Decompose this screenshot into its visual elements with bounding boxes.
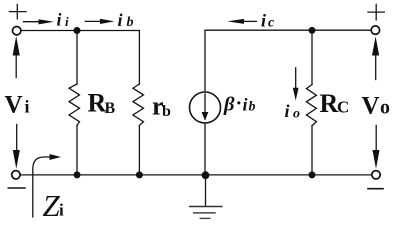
label R_B bbox=[88, 89, 116, 118]
arrow i_b bbox=[85, 19, 114, 24]
voltage arrow Vi up bbox=[13, 36, 20, 78]
input terminal top-left bbox=[13, 27, 21, 35]
svg-text:i: i bbox=[285, 101, 290, 121]
label V_i bbox=[5, 92, 30, 119]
label Z_i bbox=[43, 188, 65, 223]
node bottom r_b bbox=[136, 171, 143, 178]
minus sign bottom-left bbox=[8, 187, 25, 189]
node top junction R_B bbox=[74, 27, 81, 34]
resistor r_b bbox=[133, 84, 144, 126]
svg-text:i: i bbox=[65, 14, 69, 29]
svg-text:b: b bbox=[249, 100, 256, 115]
svg-text:β: β bbox=[223, 93, 235, 115]
wire output top rail bbox=[205, 30, 371, 92]
plus sign top-right bbox=[368, 4, 384, 20]
current source arrow bbox=[202, 94, 209, 121]
node top R_C bbox=[309, 27, 316, 34]
wire R_B top lead bbox=[76, 31, 78, 85]
svg-text:Z: Z bbox=[43, 188, 61, 223]
svg-text:o: o bbox=[293, 107, 300, 122]
wire R_B bottom lead bbox=[76, 126, 78, 175]
minus sign bottom-right bbox=[368, 188, 383, 190]
voltage arrow Vo up bbox=[372, 36, 379, 79]
resistor R_C bbox=[306, 85, 316, 126]
svg-text:i: i bbox=[59, 201, 64, 220]
svg-text:C: C bbox=[337, 98, 349, 117]
svg-text:o: o bbox=[380, 97, 390, 119]
svg-text:i: i bbox=[261, 11, 266, 31]
output terminal bottom-right bbox=[372, 171, 380, 179]
arrow i_i bbox=[24, 19, 55, 24]
node bottom R_B bbox=[74, 171, 81, 178]
svg-text:i: i bbox=[25, 97, 30, 117]
arrow i_o bbox=[293, 68, 299, 101]
label V_o bbox=[362, 93, 391, 120]
label i_c bbox=[261, 11, 275, 31]
svg-text:B: B bbox=[105, 100, 116, 117]
wire R_C top lead bbox=[311, 30, 313, 84]
wire r_b bottom lead bbox=[138, 126, 140, 175]
label i_b bbox=[118, 10, 134, 30]
svg-text:b: b bbox=[162, 103, 171, 120]
svg-text:c: c bbox=[268, 16, 275, 31]
resistor R_B bbox=[69, 84, 80, 126]
svg-text:V: V bbox=[5, 92, 23, 119]
label R_C bbox=[320, 89, 350, 118]
input terminal bottom-left bbox=[12, 171, 20, 179]
plus sign top-left bbox=[9, 4, 26, 19]
current source beta*i_b bbox=[190, 92, 221, 123]
wire top rail left bbox=[21, 30, 139, 32]
svg-text:V: V bbox=[362, 93, 380, 120]
svg-text:i: i bbox=[118, 10, 123, 30]
wire bottom rail bbox=[20, 174, 372, 176]
ground bbox=[190, 175, 222, 219]
node bottom R_C bbox=[309, 171, 316, 178]
voltage arrow Vi down bbox=[13, 125, 20, 169]
output terminal top-right bbox=[371, 26, 379, 34]
svg-text:i: i bbox=[243, 95, 248, 115]
node bottom ground junction bbox=[202, 171, 210, 179]
label r_b bbox=[152, 92, 171, 121]
wire current source bottom lead bbox=[204, 123, 206, 175]
impedance arrow Z_i bbox=[33, 154, 61, 217]
wire R_C bottom lead bbox=[311, 126, 313, 175]
label i_i bbox=[57, 10, 70, 30]
svg-text:R: R bbox=[320, 89, 339, 118]
label i_o bbox=[285, 101, 301, 122]
label beta i_b bbox=[223, 93, 256, 116]
arrow i_c bbox=[227, 19, 256, 24]
svg-text:·: · bbox=[236, 93, 243, 115]
svg-text:b: b bbox=[127, 15, 134, 30]
svg-text:i: i bbox=[57, 10, 62, 30]
voltage arrow Vo down bbox=[373, 126, 380, 169]
wire r_b branch top lead bbox=[138, 31, 140, 85]
